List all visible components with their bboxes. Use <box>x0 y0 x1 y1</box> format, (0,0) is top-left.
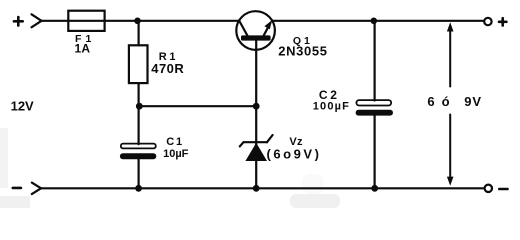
svg-text:2N3055: 2N3055 <box>278 44 327 59</box>
junction node R1 top <box>134 18 141 25</box>
terminal output top <box>484 18 491 25</box>
label Q1 <box>278 35 327 59</box>
junction node base right <box>253 103 260 110</box>
input chevron bottom <box>32 183 41 195</box>
junction node C2 bottom <box>371 185 378 192</box>
svg-text:12V: 12V <box>11 99 34 114</box>
svg-text:C 1: C 1 <box>166 136 182 148</box>
wire base lead and zener branch <box>255 41 257 189</box>
wire top rail left <box>42 20 240 22</box>
svg-text:470R: 470R <box>151 61 184 76</box>
junction node base left <box>136 103 143 110</box>
junction node C1 bottom <box>135 185 142 192</box>
minus marker input bottom <box>13 187 21 190</box>
svg-text:6: 6 <box>427 94 434 109</box>
fuse F1 <box>68 11 104 31</box>
label C2 <box>313 88 350 113</box>
wire base connector <box>139 105 257 107</box>
wire R1 bottom <box>138 83 140 106</box>
svg-text:ó: ó <box>442 94 450 109</box>
svg-text:10µF: 10µF <box>163 148 189 160</box>
bottom rail wire <box>41 187 484 189</box>
wire C2 bottom <box>374 116 376 189</box>
label Vz <box>267 136 322 161</box>
wire C1 branch <box>138 106 140 144</box>
svg-text:(6o9V): (6o9V) <box>267 147 322 162</box>
label F1 <box>75 33 92 55</box>
output range arrow <box>447 22 454 186</box>
label C1 <box>163 136 189 160</box>
label output voltage 6 or 9V <box>427 94 482 109</box>
svg-text:100µF: 100µF <box>313 101 350 113</box>
plus marker output top <box>499 18 506 25</box>
wire C1 bottom <box>138 159 140 188</box>
wire R1 branch upper <box>138 21 140 46</box>
plus marker input top <box>14 17 23 25</box>
wire top rail right <box>272 20 484 22</box>
resistor R1 <box>129 45 148 83</box>
label R1 <box>151 51 184 76</box>
svg-text:1A: 1A <box>75 41 91 55</box>
minus marker output bottom <box>499 188 507 191</box>
wire C2 branch upper <box>374 21 376 101</box>
junction node zener bottom <box>253 185 260 192</box>
terminal output bottom <box>485 185 492 192</box>
capacitor C2 <box>356 100 393 116</box>
svg-text:9V: 9V <box>464 94 482 109</box>
input chevron top <box>32 14 42 27</box>
junction node C2 top <box>371 18 378 25</box>
capacitor C1 <box>120 144 156 160</box>
transistor Q1 <box>236 11 275 50</box>
zener diode Vz <box>240 135 273 161</box>
